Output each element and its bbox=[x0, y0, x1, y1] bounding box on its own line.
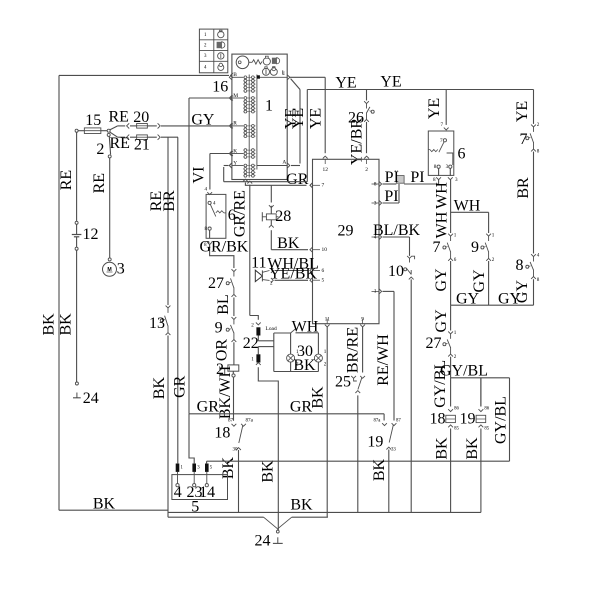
svg-text:7: 7 bbox=[441, 122, 444, 128]
svg-text:BR/RE: BR/RE bbox=[345, 327, 362, 373]
svg-text:19: 19 bbox=[367, 434, 383, 451]
svg-text:GY: GY bbox=[433, 309, 450, 333]
svg-text:GR: GR bbox=[197, 399, 220, 416]
svg-text:87: 87 bbox=[228, 418, 234, 424]
svg-text:YE/BK: YE/BK bbox=[269, 266, 317, 283]
svg-text:7: 7 bbox=[520, 131, 528, 148]
svg-text:A: A bbox=[282, 160, 286, 166]
svg-text:BK: BK bbox=[277, 235, 300, 252]
svg-text:1: 1 bbox=[251, 357, 254, 363]
svg-text:1: 1 bbox=[454, 233, 457, 239]
svg-text:BR: BR bbox=[515, 177, 532, 199]
svg-text:8: 8 bbox=[516, 257, 524, 274]
svg-text:2: 2 bbox=[96, 141, 104, 158]
svg-text:BK: BK bbox=[93, 496, 116, 513]
svg-text:33: 33 bbox=[391, 448, 396, 453]
svg-text:GY: GY bbox=[456, 290, 480, 307]
svg-text:WH: WH bbox=[292, 318, 319, 335]
svg-text:2: 2 bbox=[324, 362, 327, 368]
svg-text:BL/BK: BL/BK bbox=[373, 222, 421, 239]
svg-text:7: 7 bbox=[440, 138, 443, 144]
svg-text:WH: WH bbox=[434, 182, 451, 209]
svg-text:YE: YE bbox=[335, 74, 356, 91]
svg-text:1: 1 bbox=[265, 98, 273, 115]
svg-text:87: 87 bbox=[396, 419, 401, 424]
svg-text:15: 15 bbox=[85, 112, 101, 129]
svg-text:RE/WH: RE/WH bbox=[375, 334, 392, 386]
svg-text:24: 24 bbox=[255, 533, 271, 550]
svg-text:YE/BR: YE/BR bbox=[349, 118, 366, 165]
svg-text:6: 6 bbox=[454, 257, 457, 263]
svg-text:1: 1 bbox=[492, 233, 495, 239]
svg-text:4: 4 bbox=[174, 484, 182, 501]
svg-text:19: 19 bbox=[460, 410, 476, 427]
svg-text:BR: BR bbox=[161, 190, 178, 212]
svg-text:YE: YE bbox=[426, 98, 443, 119]
svg-text:RE: RE bbox=[108, 108, 128, 125]
svg-text:YE: YE bbox=[290, 108, 307, 129]
svg-text:24: 24 bbox=[83, 390, 99, 407]
svg-text:11: 11 bbox=[251, 254, 266, 271]
svg-text:3: 3 bbox=[446, 164, 449, 170]
svg-text:18: 18 bbox=[214, 424, 230, 441]
svg-text:I: I bbox=[283, 71, 285, 77]
svg-text:2: 2 bbox=[492, 257, 495, 263]
svg-text:R: R bbox=[233, 121, 237, 127]
svg-text:OR: OR bbox=[213, 339, 230, 362]
svg-text:28: 28 bbox=[275, 208, 291, 225]
svg-text:13: 13 bbox=[149, 315, 165, 332]
svg-text:RE: RE bbox=[91, 173, 108, 193]
svg-text:BK: BK bbox=[151, 377, 168, 400]
svg-text:GY: GY bbox=[433, 268, 450, 292]
svg-text:12: 12 bbox=[83, 226, 99, 243]
svg-text:BK: BK bbox=[40, 313, 57, 336]
svg-text:GY/BL: GY/BL bbox=[440, 363, 488, 380]
svg-text:8: 8 bbox=[434, 164, 437, 170]
svg-text:4: 4 bbox=[205, 187, 208, 193]
svg-text:BL: BL bbox=[215, 294, 232, 314]
svg-text:8: 8 bbox=[537, 277, 540, 283]
svg-text:K: K bbox=[233, 148, 237, 154]
svg-text:Load: Load bbox=[266, 326, 277, 332]
svg-text:GY/BL: GY/BL bbox=[492, 396, 509, 444]
svg-text:M: M bbox=[233, 93, 238, 99]
svg-text:PI: PI bbox=[385, 169, 399, 186]
svg-text:Y: Y bbox=[233, 160, 237, 166]
svg-text:PI: PI bbox=[410, 169, 424, 186]
svg-text:1: 1 bbox=[454, 330, 457, 336]
svg-text:27: 27 bbox=[426, 335, 442, 352]
svg-text:VI: VI bbox=[191, 167, 208, 184]
svg-text:BK: BK bbox=[220, 456, 237, 479]
svg-text:2: 2 bbox=[454, 354, 457, 360]
svg-text:2: 2 bbox=[365, 167, 368, 173]
svg-text:6: 6 bbox=[228, 207, 236, 224]
svg-text:BK/WH: BK/WH bbox=[217, 365, 234, 419]
svg-text:3: 3 bbox=[455, 177, 458, 183]
svg-text:BK: BK bbox=[290, 496, 313, 513]
svg-text:10: 10 bbox=[322, 247, 328, 253]
svg-text:GY: GY bbox=[498, 290, 522, 307]
svg-text:87a: 87a bbox=[246, 418, 254, 424]
svg-text:8: 8 bbox=[374, 181, 377, 187]
svg-text:YE: YE bbox=[380, 74, 401, 91]
svg-text:7: 7 bbox=[322, 183, 325, 189]
svg-text:6: 6 bbox=[458, 146, 466, 163]
svg-text:BK: BK bbox=[57, 313, 74, 336]
svg-text:RE: RE bbox=[109, 135, 129, 152]
svg-text:21: 21 bbox=[134, 137, 150, 154]
svg-text:30: 30 bbox=[233, 447, 239, 453]
svg-text:2: 2 bbox=[251, 323, 254, 329]
svg-text:87a: 87a bbox=[374, 419, 382, 424]
svg-text:BK: BK bbox=[434, 437, 451, 460]
svg-text:PI: PI bbox=[384, 188, 398, 205]
svg-text:WH: WH bbox=[454, 198, 481, 215]
svg-text:GR/BK: GR/BK bbox=[199, 238, 248, 255]
svg-text:RE: RE bbox=[58, 170, 75, 190]
svg-text:85: 85 bbox=[484, 427, 489, 432]
svg-text:GR: GR bbox=[290, 399, 313, 416]
svg-text:4: 4 bbox=[213, 201, 216, 207]
svg-text:8: 8 bbox=[433, 177, 436, 183]
svg-text:9: 9 bbox=[215, 320, 223, 337]
svg-text:B: B bbox=[233, 72, 237, 78]
svg-text:3: 3 bbox=[374, 200, 377, 206]
svg-text:GR: GR bbox=[286, 171, 309, 188]
svg-text:27: 27 bbox=[208, 275, 224, 292]
svg-text:20: 20 bbox=[133, 109, 149, 126]
svg-text:1: 1 bbox=[374, 289, 377, 295]
svg-text:4: 4 bbox=[537, 253, 540, 259]
svg-text:2: 2 bbox=[537, 122, 540, 128]
svg-text:6: 6 bbox=[322, 268, 325, 274]
svg-text:BK: BK bbox=[371, 458, 388, 481]
svg-text:8: 8 bbox=[537, 149, 540, 155]
svg-text:GR: GR bbox=[171, 375, 188, 398]
svg-text:GY: GY bbox=[471, 269, 488, 293]
svg-text:10: 10 bbox=[388, 263, 404, 280]
svg-text:12: 12 bbox=[322, 167, 328, 173]
svg-text:8: 8 bbox=[205, 226, 208, 232]
svg-text:25: 25 bbox=[335, 374, 351, 391]
svg-text:18: 18 bbox=[430, 410, 446, 427]
svg-text:YE: YE bbox=[514, 101, 531, 122]
svg-text:14: 14 bbox=[199, 484, 215, 501]
svg-text:16: 16 bbox=[212, 78, 228, 95]
svg-text:BK: BK bbox=[260, 460, 277, 483]
svg-text:86: 86 bbox=[484, 407, 489, 412]
svg-text:1: 1 bbox=[324, 349, 327, 355]
svg-text:29: 29 bbox=[338, 223, 354, 240]
svg-text:2: 2 bbox=[296, 362, 299, 368]
svg-text:BK: BK bbox=[464, 437, 481, 460]
svg-text:GY: GY bbox=[191, 111, 215, 128]
svg-text:1: 1 bbox=[296, 349, 299, 355]
svg-text:22: 22 bbox=[243, 335, 259, 352]
svg-text:YE: YE bbox=[307, 108, 324, 129]
svg-text:7: 7 bbox=[433, 239, 441, 256]
svg-text:5: 5 bbox=[322, 278, 325, 284]
svg-text:WH: WH bbox=[434, 211, 451, 238]
svg-text:9: 9 bbox=[471, 239, 479, 256]
svg-text:3: 3 bbox=[117, 260, 125, 277]
